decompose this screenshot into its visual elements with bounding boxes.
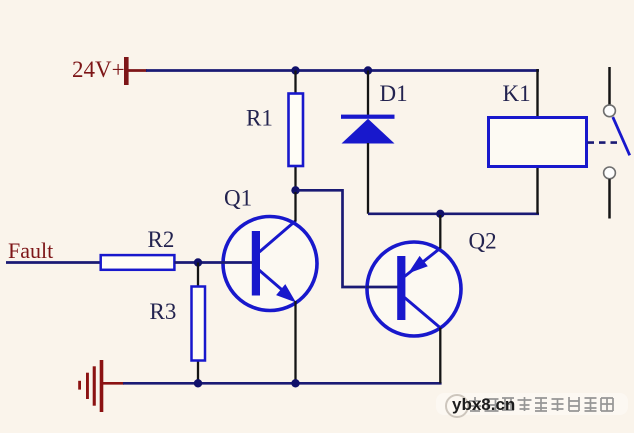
- svg-text:K1: K1: [503, 81, 531, 106]
- transistor Q2 emitter pin: [439, 215, 441, 249]
- junction node R1 top: [291, 66, 299, 74]
- watermark CJK glyph row: [469, 397, 613, 411]
- wire Fault input: [6, 261, 102, 264]
- junction node R3 top: [194, 258, 202, 266]
- watermark backdrop: [436, 393, 628, 415]
- switch upper contact circle: [604, 105, 616, 117]
- switch linkage dashed: [588, 141, 619, 144]
- watermark logo circle: [446, 395, 468, 417]
- resistor R2: [101, 255, 175, 270]
- wire top rail: [146, 69, 539, 72]
- wire ground red stub: [103, 382, 124, 385]
- svg-text:D1: D1: [380, 81, 408, 106]
- transistor Q2 emitter arrow: [408, 256, 428, 274]
- svg-text:ybx8.cn: ybx8.cn: [452, 395, 515, 414]
- junction node R3 bottom: [194, 379, 202, 387]
- resistor R1: [289, 94, 304, 167]
- transistor Q1 emitter arrow: [276, 284, 296, 302]
- resistor R3 pin 1: [197, 263, 199, 288]
- transistor Q2 base bar: [397, 256, 405, 320]
- svg-text:R3: R3: [150, 299, 177, 324]
- transistor Q1 collector diagonal: [259, 221, 295, 252]
- relay K1 pin 2: [536, 166, 538, 214]
- ground bar 4: [78, 381, 81, 390]
- resistor R3: [192, 287, 206, 361]
- svg-text:Q1: Q1: [224, 186, 252, 211]
- wire R2 to Q1 base: [174, 261, 252, 264]
- resistor R1 pin 1: [294, 71, 296, 95]
- switch lower pin: [608, 179, 611, 218]
- junction node Q1 collector: [291, 186, 299, 194]
- transistor Q1 emitter diagonal: [259, 270, 288, 295]
- wire D1 anode to K1 bottom: [368, 212, 539, 215]
- wire Q2 base inside body: [366, 286, 398, 289]
- resistor R1 pin 2: [294, 166, 296, 191]
- diode D1 cathode bar: [341, 115, 395, 119]
- diode D1 triangle: [342, 119, 395, 144]
- junction node Q1 emitter bottom: [291, 379, 299, 387]
- svg-text:Q2: Q2: [469, 229, 497, 254]
- wire bottom rail: [123, 382, 442, 385]
- ground bar 1: [100, 360, 104, 412]
- transistor Q1 emitter pin: [294, 301, 296, 383]
- wire Q1 collector node to Q2 base: [298, 190, 398, 287]
- svg-text:R1: R1: [246, 106, 273, 131]
- junction node Q2 emitter: [436, 210, 444, 218]
- wire 24V+ red stub: [127, 69, 147, 72]
- transistor Q1 base bar: [252, 231, 260, 296]
- transistor Q1 collector pin: [294, 192, 296, 222]
- switch upper pin: [608, 67, 611, 105]
- junction node D1 top: [364, 66, 372, 74]
- transistor Q2 collector pin: [439, 328, 441, 384]
- diode D1 pin anode: [367, 143, 369, 214]
- relay K1 pin 1: [536, 69, 538, 118]
- switch lower contact circle: [604, 167, 616, 179]
- relay K1 coil box: [489, 118, 587, 167]
- svg-text:R2: R2: [148, 227, 175, 252]
- transistor Q2 body: [367, 242, 461, 336]
- transistor Q2 emitter diagonal: [405, 248, 441, 277]
- diode D1 pin cathode: [367, 71, 369, 116]
- ground bar 3: [86, 373, 89, 399]
- ground bar 2: [93, 366, 96, 405]
- transistor Q1 body: [223, 217, 317, 311]
- svg-text:Fault: Fault: [8, 238, 53, 263]
- transistor Q2 collector diagonal: [405, 298, 441, 329]
- power terminal bar 24V+: [124, 57, 129, 85]
- svg-text:24V+: 24V+: [72, 57, 125, 82]
- resistor R3 pin 2: [197, 360, 199, 383]
- switch blade: [613, 117, 630, 155]
